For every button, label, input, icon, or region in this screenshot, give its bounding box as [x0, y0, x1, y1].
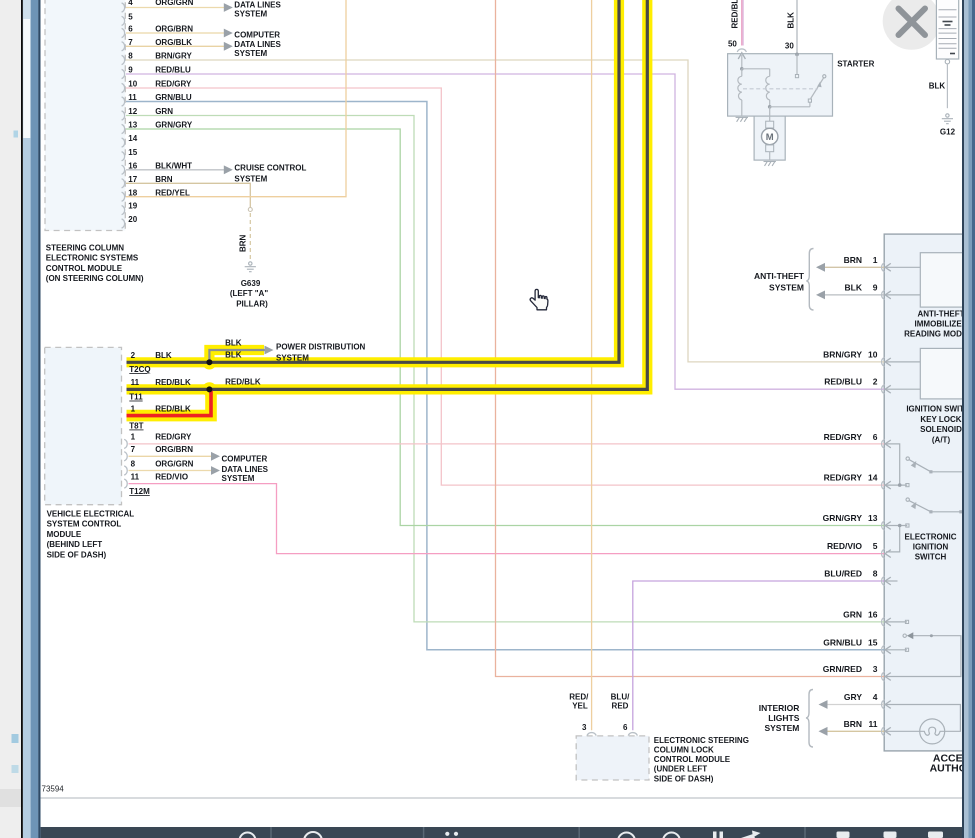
svg-text:BRN: BRN [844, 719, 862, 729]
svg-text:73594: 73594 [42, 785, 65, 794]
wire GRN/BLU row11 to pin15 [126, 102, 884, 650]
motor M box [754, 116, 785, 160]
svg-text:PILLAR): PILLAR) [236, 299, 268, 308]
wire RED/YEL row18 going up offscreen [126, 0, 346, 197]
svg-text:7: 7 [131, 445, 136, 454]
svg-text:STEERING COLUMN: STEERING COLUMN [46, 243, 124, 252]
svg-text:BRN/GRY: BRN/GRY [823, 349, 862, 359]
black divider line [21, 0, 23, 838]
pin6 bridge to pin14 [886, 444, 900, 485]
svg-text:RED/: RED/ [569, 693, 589, 702]
pin 6 connector and arrow, right module U1 [882, 439, 885, 448]
wire 30 inside [796, 54, 798, 74]
BLK branch core [209, 350, 264, 362]
svg-text:11: 11 [131, 378, 140, 387]
pin 19 connector, steering column module [122, 206, 125, 215]
svg-text:1: 1 [131, 404, 136, 413]
pin T12M-11 connector, vehicle electrical module [124, 479, 127, 488]
svg-text:13: 13 [128, 121, 137, 130]
starter box [728, 54, 833, 116]
pin 10 connector and arrow, right module U1 [882, 357, 885, 366]
svg-text:SYSTEM: SYSTEM [764, 723, 799, 733]
wire BRN pin11 to interior lights arrow [825, 730, 884, 732]
pin8 stub [886, 580, 898, 582]
svg-text:5: 5 [128, 13, 133, 22]
svg-text:SYSTEM: SYSTEM [769, 282, 804, 292]
svg-text:BLK/WHT: BLK/WHT [155, 161, 192, 170]
BLK core wire [127, 0, 620, 362]
small blue dots on gray strip [14, 131, 19, 138]
pin 7 connector, steering column module [122, 42, 125, 51]
switch top contact circle [823, 75, 826, 78]
svg-text:BLK: BLK [155, 351, 172, 360]
blade arrowhead [817, 82, 821, 88]
svg-text:ANTI-THEFT: ANTI-THEFT [754, 271, 805, 281]
pin 14 connector, steering column module [122, 138, 125, 147]
white patch on left scrollbar [23, 19, 30, 138]
motor wire [769, 107, 771, 121]
hand cursor [530, 289, 548, 309]
svg-text:MODULE: MODULE [47, 530, 82, 539]
svg-text:11: 11 [869, 719, 878, 729]
svg-text:5: 5 [873, 541, 878, 551]
svg-text:YEL: YEL [572, 702, 588, 711]
svg-text:COMPUTER: COMPUTER [234, 31, 280, 40]
pin 4 connector, steering column module [122, 3, 125, 12]
svg-text:GRN/BLU: GRN/BLU [155, 93, 192, 102]
svg-text:18: 18 [128, 188, 137, 197]
RED branch core [127, 391, 212, 416]
interior lights brace [806, 690, 813, 748]
svg-text:14: 14 [868, 473, 878, 483]
svg-text:ORG/BRN: ORG/BRN [155, 445, 193, 454]
pin15 stub [886, 649, 907, 651]
svg-text:BLK: BLK [845, 282, 863, 292]
svg-text:COLUMN LOCK: COLUMN LOCK [654, 746, 714, 755]
svg-text:(BEHIND LEFT: (BEHIND LEFT [47, 540, 103, 549]
svg-text:BLK: BLK [929, 82, 946, 91]
svg-text:CONTROL MODULE: CONTROL MODULE [46, 264, 123, 273]
switch pivot contact [808, 99, 811, 102]
svg-text:6: 6 [873, 432, 878, 442]
pin 9 connector, steering column module [122, 69, 125, 78]
ground under coil L1 [736, 117, 748, 121]
pins 1,9 to immobilizer box [886, 266, 920, 268]
pin 14 connector and arrow, right module U1 [882, 481, 885, 490]
brush box bottom [766, 145, 774, 152]
wire BLK anti-theft pin9 [823, 294, 885, 296]
svg-text:8: 8 [128, 52, 133, 61]
coil L2 [766, 76, 770, 100]
svg-text:30: 30 [785, 42, 794, 51]
yellow branch power distribution [209, 350, 264, 362]
svg-text:GRN/RED: GRN/RED [823, 664, 862, 674]
wire ORG/GRN T12M-8 [129, 470, 212, 472]
svg-text:RED/GRY: RED/GRY [824, 473, 863, 483]
splice circle G639 wire [248, 208, 252, 212]
svg-text:14: 14 [128, 134, 137, 143]
mechanical link dashed [743, 88, 818, 90]
pin 8 connector, steering column module [122, 55, 125, 64]
wire BLK/WHT row16 cruise control [126, 169, 224, 171]
svg-text:DATA LINES: DATA LINES [234, 0, 281, 9]
motor circle M [762, 128, 778, 144]
pin 8 connector and arrow, right module U1 [882, 576, 885, 585]
svg-text:CONTROL MODULE: CONTROL MODULE [654, 755, 731, 764]
connector arcs ESCL [587, 733, 596, 736]
svg-text:GRN: GRN [155, 107, 173, 116]
svg-text:SYSTEM: SYSTEM [222, 474, 255, 483]
svg-text:9: 9 [128, 66, 133, 75]
svg-text:10: 10 [868, 349, 878, 359]
terminal arrow 50 [738, 53, 745, 59]
wire ORG/BLK row7 [126, 45, 224, 47]
pin13 bridge to pin5 [886, 525, 907, 527]
wire ORG/BRN row6 [126, 32, 224, 34]
svg-text:BLU/: BLU/ [611, 693, 630, 702]
pins 10,2 to solenoid box [886, 361, 920, 363]
pin 11 connector, steering column module [122, 97, 125, 106]
svg-text:BRN: BRN [155, 175, 173, 184]
lamp bulb [920, 719, 945, 744]
svg-text:T12M: T12M [129, 487, 150, 496]
svg-text:3: 3 [582, 723, 587, 732]
ignition switch 1 [909, 460, 931, 472]
svg-text:M: M [766, 132, 774, 143]
svg-text:DATA LINES: DATA LINES [234, 40, 281, 49]
right-side module U1 outer box [884, 234, 975, 751]
junction dot J2 [206, 386, 212, 392]
svg-text:LIGHTS: LIGHTS [768, 713, 799, 723]
electronic steering column lock control module (dashed box) [576, 736, 649, 780]
svg-text:STARTER: STARTER [837, 59, 874, 68]
anti-theft brace [806, 249, 813, 311]
ignition switch key lock solenoid inner box [920, 348, 975, 399]
svg-text:13: 13 [868, 513, 878, 523]
svg-text:SYSTEM: SYSTEM [234, 175, 267, 184]
svg-text:11: 11 [128, 93, 137, 102]
right module internal wiring [886, 267, 975, 731]
pin 16 connector, steering column module [122, 165, 125, 174]
junction dot 30 [795, 53, 799, 57]
svg-text:8: 8 [873, 569, 878, 579]
svg-text:G12: G12 [940, 128, 956, 137]
svg-text:IMMOBILIZER: IMMOBILIZER [915, 320, 968, 329]
svg-text:2: 2 [873, 377, 878, 387]
pin 18 connector, steering column module [122, 192, 125, 201]
bottom toolbar [41, 827, 962, 838]
page bottom border [41, 797, 962, 799]
pin 12 connector, steering column module [122, 111, 125, 120]
steering column electronic systems control module (dashed box, top clipped) [45, 0, 125, 231]
junction dot J1 [206, 359, 212, 365]
svg-text:15: 15 [868, 637, 878, 647]
svg-text:1: 1 [873, 255, 878, 265]
svg-text:15: 15 [128, 148, 137, 157]
svg-text:KEY LOCK: KEY LOCK [920, 415, 961, 424]
svg-text:RED/BL: RED/BL [730, 0, 739, 29]
wire RED/VIO T12M-11 to pin5 [129, 484, 885, 554]
close button [883, 0, 941, 50]
wire GRN/RED from top to pin3 [496, 0, 885, 677]
switch contact squares and dots [898, 483, 902, 487]
wire RED/BL to starter 50 [741, 0, 743, 46]
pin16 stub [886, 621, 907, 623]
pin 3 connector and arrow, right module U1 [882, 672, 885, 681]
svg-text:SWITCH: SWITCH [915, 553, 947, 562]
svg-text:BLU/RED: BLU/RED [824, 569, 862, 579]
svg-text:ELECTRONIC STEERING: ELECTRONIC STEERING [654, 736, 749, 745]
svg-text:BLK: BLK [787, 12, 796, 29]
pin11 to lamp [886, 730, 920, 732]
brush box top [766, 121, 774, 128]
svg-text:BLK: BLK [225, 338, 242, 347]
wire ORG/BRN T12M-7 [129, 455, 212, 457]
svg-text:INTERIOR: INTERIOR [759, 703, 800, 713]
svg-text:GRN/GRY: GRN/GRY [823, 513, 863, 523]
wire GRN/GRY row13 to pin13 [126, 129, 884, 526]
svg-text:SIDE OF DASH): SIDE OF DASH) [47, 550, 107, 559]
dashed drop to G639 [249, 213, 251, 261]
svg-text:RED: RED [612, 702, 629, 711]
pin 11 connector and arrow, right module U1 [882, 727, 885, 736]
svg-text:RED/VIO: RED/VIO [827, 541, 862, 551]
toolbar icon glimpses [240, 832, 681, 838]
key-in sensor circle and arrow [903, 634, 906, 637]
svg-text:IGNITION: IGNITION [913, 543, 949, 552]
svg-text:(UNDER LEFT: (UNDER LEFT [654, 765, 707, 774]
switch blade [811, 78, 824, 99]
svg-text:17: 17 [128, 175, 137, 184]
wire ORG/GRN row4 [126, 7, 224, 9]
vehicle electrical system control module (dashed box) [45, 347, 122, 504]
svg-text:16: 16 [868, 609, 878, 619]
svg-text:12: 12 [128, 107, 137, 116]
svg-text:(A/T): (A/T) [932, 435, 951, 444]
wire GRN row12 to pin16 [126, 116, 884, 622]
left gray strip [0, 0, 21, 838]
svg-text:BRN: BRN [239, 234, 248, 252]
svg-text:SYSTEM CONTROL: SYSTEM CONTROL [47, 520, 122, 529]
svg-text:COMPUTER: COMPUTER [222, 454, 268, 463]
RED/BLK core wire [127, 0, 648, 389]
pin 1 connector and arrow, right module U1 [882, 263, 885, 272]
svg-text:4: 4 [873, 692, 878, 702]
right module pin connectors and arrows [882, 263, 891, 736]
svg-text:RED/GRY: RED/GRY [155, 80, 192, 89]
svg-text:SOLENOID: SOLENOID [920, 425, 962, 434]
svg-text:SYSTEM: SYSTEM [276, 353, 309, 362]
ignition switch 2 [909, 501, 931, 512]
svg-text:(ON STEERING COLUMN): (ON STEERING COLUMN) [46, 274, 144, 283]
svg-text:GRY: GRY [844, 692, 862, 702]
battery terminal circle [945, 60, 949, 64]
connector arcs top-left module rows 4-20 [122, 3, 125, 228]
svg-text:ORG/GRN: ORG/GRN [155, 0, 193, 7]
svg-text:2: 2 [131, 351, 136, 360]
anti-theft arrows [816, 263, 825, 272]
svg-text:ORG/BRN: ORG/BRN [155, 25, 193, 34]
coil L1 [738, 76, 742, 100]
wire RED/YEL from top to ESCL pin3 [591, 0, 593, 730]
svg-text:ELECTRONIC SYSTEMS: ELECTRONIC SYSTEMS [46, 254, 139, 263]
wire BRN/GRY row8 to pin10 [126, 60, 884, 362]
wire RED/GRY row10 to pin14 [126, 88, 884, 485]
svg-text:19: 19 [128, 202, 137, 211]
interior lights arrows [819, 700, 828, 709]
svg-text:CRUISE CONTROL: CRUISE CONTROL [234, 164, 306, 173]
pin 13 connector, steering column module [122, 124, 125, 133]
svg-text:DATA LINES: DATA LINES [222, 465, 269, 474]
ground under motor [764, 162, 776, 166]
arrow to data lines system row4 [224, 3, 233, 12]
svg-text:ORG/GRN: ORG/GRN [155, 459, 193, 468]
svg-text:10: 10 [128, 80, 137, 89]
pin 15 connector and arrow, right module U1 [882, 645, 885, 654]
yellow highlighted BLK wire [127, 0, 620, 362]
svg-text:BRN: BRN [844, 255, 862, 265]
svg-text:GRN/BLU: GRN/BLU [823, 637, 862, 647]
svg-text:RED/VIO: RED/VIO [155, 472, 188, 481]
junction node coil2 [768, 105, 772, 109]
svg-text:ORG/BLK: ORG/BLK [155, 38, 192, 47]
svg-text:T8T: T8T [129, 422, 143, 431]
svg-text:RED/GRY: RED/GRY [155, 433, 192, 442]
wire BRN row17 to G639 [126, 183, 250, 207]
wire BLK battery to G12 [946, 64, 948, 108]
svg-text:RED/BLK: RED/BLK [225, 377, 261, 386]
pin4 frame to lamp [886, 705, 960, 732]
wire BLU/RED pin8 to ESCL pin6 [633, 581, 884, 730]
svg-text:3: 3 [873, 664, 878, 674]
svg-text:6: 6 [623, 723, 628, 732]
svg-text:ELECTRONIC: ELECTRONIC [905, 532, 957, 541]
pin 15 connector, steering column module [122, 152, 125, 161]
svg-text:4: 4 [128, 0, 133, 7]
svg-text:16: 16 [128, 161, 137, 170]
connector 50 [737, 49, 746, 52]
pin 5 connector, steering column module [122, 16, 125, 25]
svg-text:RED/YEL: RED/YEL [155, 188, 190, 197]
wire BRN anti-theft pin1 [823, 266, 885, 268]
pin T12M-8 connector, vehicle electrical module [124, 466, 127, 475]
svg-text:VEHICLE ELECTRICAL: VEHICLE ELECTRICAL [47, 510, 135, 519]
pin 5 connector and arrow, right module U1 [882, 549, 885, 558]
pin 13 connector and arrow, right module U1 [882, 521, 885, 530]
svg-text:SYSTEM: SYSTEM [234, 49, 267, 58]
pin 9 connector and arrow, right module U1 [882, 290, 885, 299]
svg-text:G639: G639 [241, 279, 261, 288]
svg-text:50: 50 [728, 39, 737, 48]
pin 17 connector, steering column module [122, 179, 125, 188]
svg-text:RED/GRY: RED/GRY [824, 432, 863, 442]
pin 4 connector and arrow, right module U1 [882, 700, 885, 709]
anti-theft immobilizer reading module inner box [920, 253, 975, 307]
svg-text:POWER DISTRIBUTION: POWER DISTRIBUTION [276, 343, 366, 352]
svg-text:SYSTEM: SYSTEM [234, 10, 267, 19]
svg-text:T2CQ: T2CQ [129, 365, 150, 374]
svg-text:1: 1 [131, 433, 136, 442]
wire BLK to starter 30 [796, 0, 798, 54]
yellow glow around red branch [127, 389, 212, 415]
svg-text:BLK: BLK [225, 351, 242, 360]
ground G12 [942, 114, 953, 124]
yellow highlighted RED/BLK wire [127, 0, 648, 389]
pin 10 connector, steering column module [122, 83, 125, 92]
pin 16 connector and arrow, right module U1 [882, 617, 885, 626]
svg-text:11: 11 [131, 472, 140, 481]
svg-text:RED/BLK: RED/BLK [155, 404, 191, 413]
svg-text:GRN/GRY: GRN/GRY [155, 121, 193, 130]
svg-text:T11: T11 [129, 393, 143, 402]
ground G639 [245, 262, 256, 272]
svg-text:(LEFT "A": (LEFT "A" [230, 289, 268, 298]
svg-text:ANTI-THEFT: ANTI-THEFT [917, 309, 964, 318]
svg-text:7: 7 [128, 38, 133, 47]
left blue scrollbar [23, 0, 31, 838]
pin T12M-7 connector, vehicle electrical module [124, 452, 127, 461]
pin 2 connector and arrow, right module U1 [882, 385, 885, 394]
pin 20 connector, steering column module [122, 219, 125, 228]
svg-text:BRN/GRY: BRN/GRY [155, 52, 192, 61]
wire GRY pin4 to interior lights arrow [825, 704, 884, 706]
pin T8T-1 connector, vehicle electrical module [124, 439, 127, 448]
wire RED/BLU row9 to pin2 [126, 74, 884, 389]
connector arcs bottom-left module [124, 439, 127, 488]
right blue scrollbar [962, 0, 975, 838]
battery [936, 0, 958, 59]
svg-text:6: 6 [128, 25, 133, 34]
svg-text:8: 8 [131, 459, 136, 468]
svg-text:GRN: GRN [843, 609, 862, 619]
key sensor line to pin3 [886, 636, 961, 677]
svg-text:SIDE OF DASH): SIDE OF DASH) [654, 774, 714, 783]
svg-text:20: 20 [128, 215, 137, 224]
pin 6 connector, steering column module [122, 28, 125, 37]
svg-text:RED/BLU: RED/BLU [824, 377, 862, 387]
svg-text:RED/BLK: RED/BLK [155, 378, 191, 387]
wire RED/GRY T8T-1 to pin6 [129, 443, 885, 445]
svg-text:RED/BLU: RED/BLU [155, 66, 191, 75]
yellow junction blobs [202, 355, 216, 369]
starter internal node [740, 67, 744, 71]
svg-text:9: 9 [873, 282, 878, 292]
